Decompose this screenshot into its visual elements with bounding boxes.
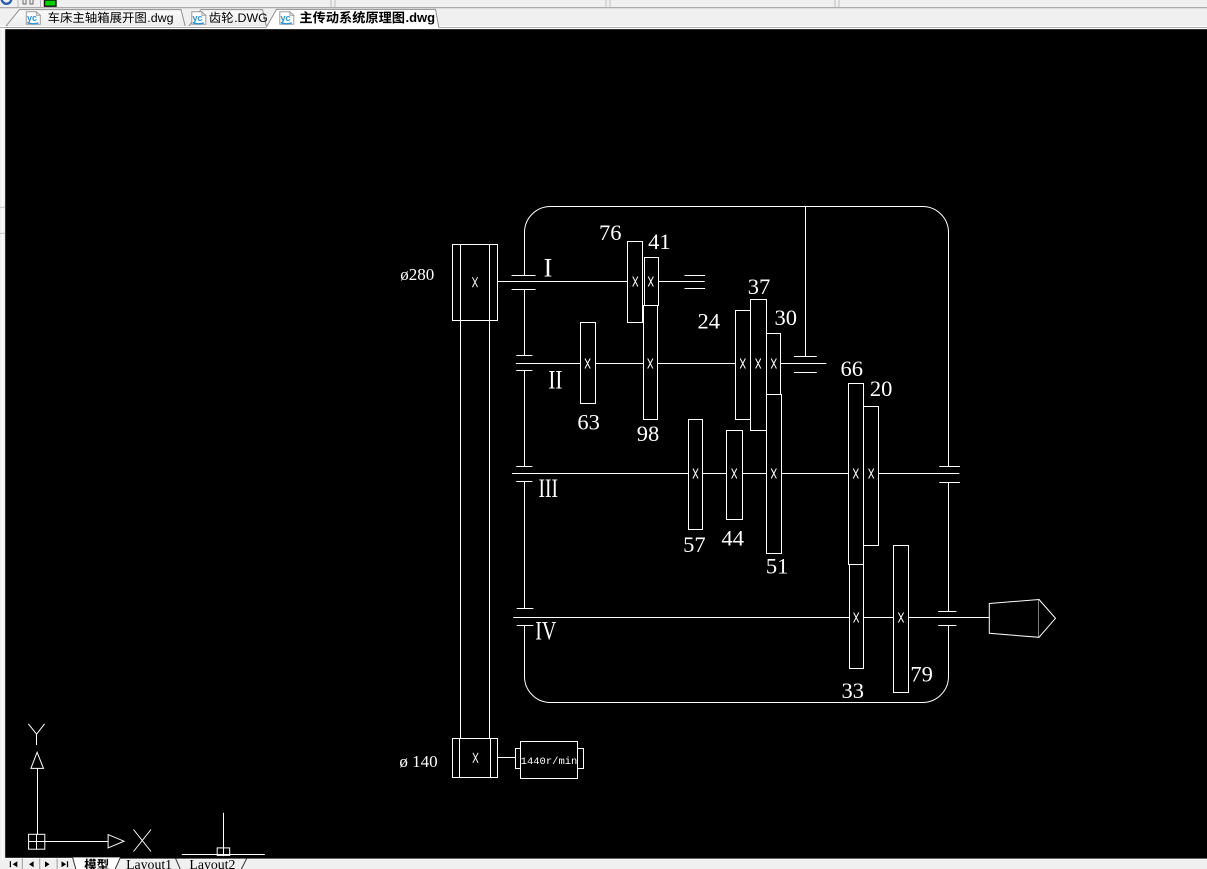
svg-text:ø 140: ø 140 bbox=[399, 752, 437, 771]
svg-text:30: 30 bbox=[775, 305, 798, 330]
svg-text:63: 63 bbox=[577, 410, 600, 435]
svg-text:IV: IV bbox=[535, 616, 556, 645]
svg-text:41: 41 bbox=[648, 229, 671, 254]
svg-text:Layout1: Layout1 bbox=[126, 857, 172, 869]
svg-text:66: 66 bbox=[840, 356, 863, 381]
svg-text:.DWG: .DWG bbox=[234, 11, 268, 25]
svg-text:98: 98 bbox=[637, 421, 660, 446]
svg-text:Layout2: Layout2 bbox=[189, 857, 235, 869]
svg-text:44: 44 bbox=[722, 525, 745, 550]
svg-text:33: 33 bbox=[841, 678, 864, 703]
svg-text:76: 76 bbox=[599, 220, 622, 245]
svg-text:20: 20 bbox=[870, 376, 893, 401]
svg-text:yc: yc bbox=[193, 13, 203, 23]
svg-text:79: 79 bbox=[910, 661, 933, 686]
svg-text:yc: yc bbox=[281, 13, 291, 23]
svg-text:III: III bbox=[539, 474, 559, 503]
svg-text:ø280: ø280 bbox=[400, 265, 434, 284]
svg-text:yc: yc bbox=[27, 13, 37, 23]
svg-text:1440r/min: 1440r/min bbox=[521, 756, 578, 768]
svg-text:57: 57 bbox=[683, 532, 706, 557]
svg-text:.dwg: .dwg bbox=[406, 10, 436, 25]
svg-text:I: I bbox=[544, 253, 553, 282]
svg-text:37: 37 bbox=[748, 274, 771, 299]
svg-text:51: 51 bbox=[766, 553, 789, 578]
svg-text:.dwg: .dwg bbox=[147, 11, 173, 25]
svg-text:24: 24 bbox=[698, 309, 721, 334]
svg-text:II: II bbox=[548, 365, 562, 394]
